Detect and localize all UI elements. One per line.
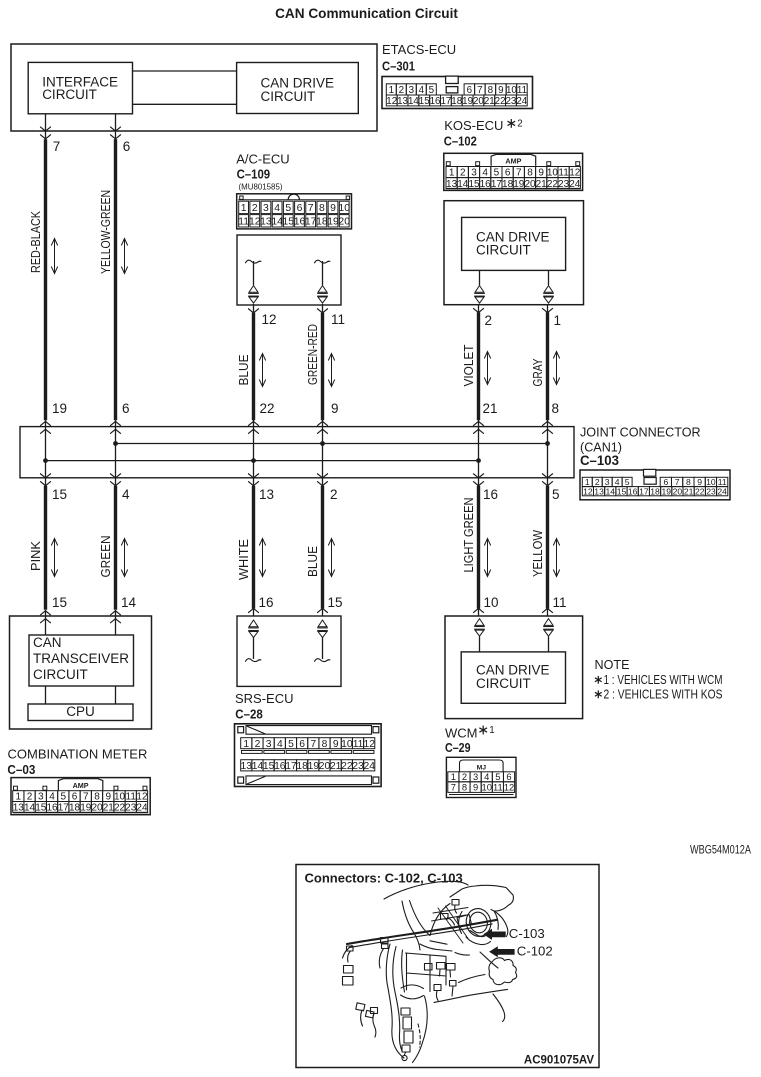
svg-text:22: 22	[695, 486, 705, 496]
wires through joint connector	[45, 420, 47, 486]
wire YELLOW lower	[546, 486, 549, 609]
joint connector box C-103	[20, 427, 574, 478]
connector C-301 (ETACS)	[382, 77, 533, 109]
arrow col3	[262, 354, 264, 386]
arrow to C-102	[489, 946, 514, 957]
svg-text:18: 18	[451, 96, 462, 107]
svg-text:10: 10	[547, 168, 559, 179]
junction dots upper bus	[113, 441, 118, 446]
svg-text:10: 10	[484, 595, 499, 610]
svg-text:14: 14	[457, 179, 469, 190]
svg-text:CIRCUIT: CIRCUIT	[261, 89, 316, 104]
svg-text:11: 11	[553, 595, 567, 610]
svg-text:18: 18	[69, 803, 81, 814]
svg-text:17: 17	[491, 179, 503, 190]
svg-text:12: 12	[262, 312, 277, 327]
svg-text:20: 20	[673, 486, 683, 496]
svg-text:12: 12	[386, 96, 397, 107]
svg-text:18: 18	[296, 761, 308, 772]
svg-text:11: 11	[238, 217, 249, 228]
link transceiver-CPU col2	[115, 686, 117, 704]
wire col1 into meter	[45, 610, 47, 635]
svg-text:6: 6	[122, 401, 130, 416]
svg-text:6: 6	[467, 85, 473, 96]
svg-text:2: 2	[399, 85, 404, 96]
svg-text:19: 19	[513, 179, 525, 190]
svg-text:14: 14	[24, 803, 36, 814]
svg-text:13: 13	[397, 96, 408, 107]
connector C-102 (KOS)	[444, 153, 583, 190]
svg-text:C–102: C–102	[444, 134, 477, 149]
svg-text:15: 15	[283, 217, 295, 228]
harness illustration	[343, 881, 517, 1062]
svg-text:12: 12	[249, 217, 261, 228]
svg-text:23: 23	[505, 96, 516, 107]
svg-text:9: 9	[330, 203, 336, 214]
svg-text:22: 22	[260, 401, 275, 416]
svg-text:4: 4	[482, 168, 488, 179]
svg-text:BLUE: BLUE	[306, 546, 320, 577]
A/C-ECU box	[237, 235, 341, 305]
svg-text:10: 10	[338, 203, 350, 214]
svg-text:17: 17	[58, 803, 70, 814]
termination symbol col3 (SRS)	[249, 620, 258, 627]
arrow GREEN	[124, 539, 126, 576]
svg-text:22: 22	[114, 803, 126, 814]
svg-text:GREEN: GREEN	[99, 536, 113, 578]
svg-text:7: 7	[451, 781, 456, 792]
svg-text:16: 16	[430, 96, 441, 107]
svg-text:14: 14	[605, 486, 615, 496]
svg-text:2: 2	[517, 119, 522, 130]
svg-text:ETACS-ECU: ETACS-ECU	[382, 42, 456, 57]
svg-text:C–103: C–103	[580, 453, 619, 468]
svg-text:20: 20	[338, 217, 350, 228]
svg-text:16: 16	[274, 761, 286, 772]
svg-text:CAN Communication Circuit: CAN Communication Circuit	[275, 6, 458, 21]
svg-text:WHITE: WHITE	[237, 539, 251, 580]
svg-text:13: 13	[241, 761, 253, 772]
svg-text:9: 9	[538, 168, 544, 179]
svg-text:RED-BLACK: RED-BLACK	[29, 210, 43, 273]
svg-text:15: 15	[35, 803, 47, 814]
crossing at SRS/WCM box edge	[473, 608, 484, 612]
svg-text:CIRCUIT: CIRCUIT	[476, 243, 531, 258]
CAN transceiver circuit block	[29, 635, 134, 686]
svg-text:12: 12	[583, 486, 593, 496]
svg-text:5: 5	[429, 85, 435, 96]
svg-text:24: 24	[569, 179, 581, 190]
svg-text:12: 12	[504, 781, 514, 792]
svg-text:11: 11	[493, 781, 503, 792]
crossing at meter box edge	[40, 611, 51, 615]
crossing at A/C box edge col4	[317, 309, 328, 313]
svg-text:SRS-ECU: SRS-ECU	[235, 691, 294, 706]
svg-text:3: 3	[263, 203, 269, 214]
connector C-109 (A/C)	[237, 194, 352, 229]
svg-text:15: 15	[52, 487, 67, 502]
svg-text:17: 17	[639, 486, 649, 496]
svg-text:A/C-ECU: A/C-ECU	[236, 151, 289, 166]
svg-text:4: 4	[122, 487, 130, 502]
wire col2 into meter	[115, 610, 117, 635]
svg-text:15: 15	[419, 96, 430, 107]
connector C-28 (SRS)	[235, 724, 382, 787]
svg-text:PINK: PINK	[29, 540, 43, 571]
svg-text:GRAY: GRAY	[531, 358, 545, 386]
svg-text:AC901075AV: AC901075AV	[524, 1055, 594, 1067]
crossing at KOS box edge col6	[542, 308, 553, 312]
svg-text:11: 11	[331, 312, 345, 327]
svg-text:8: 8	[527, 168, 533, 179]
svg-text:21: 21	[483, 401, 498, 416]
svg-text:7: 7	[53, 139, 61, 154]
svg-text:COMBINATION METER: COMBINATION METER	[8, 747, 148, 762]
wire PINK lower	[44, 486, 47, 610]
wire BLUE lower	[321, 486, 324, 609]
svg-text:15: 15	[52, 595, 67, 610]
svg-text:1: 1	[449, 168, 455, 179]
CAN drive circuit block (KOS)	[462, 217, 566, 270]
svg-text:C-103: C-103	[509, 926, 545, 941]
svg-text:3: 3	[471, 168, 477, 179]
wire col2 from interface circuit	[115, 114, 117, 140]
svg-text:(MU801585): (MU801585)	[239, 181, 283, 191]
wire LIGHT GREEN lower	[477, 486, 480, 609]
svg-text:9: 9	[498, 85, 503, 96]
svg-text:AMP: AMP	[505, 157, 521, 166]
svg-text:JOINT CONNECTOR: JOINT CONNECTOR	[580, 426, 701, 440]
arrow col6	[556, 352, 558, 384]
crossing at SRS/WCM box edge	[317, 608, 328, 612]
svg-text:14: 14	[121, 595, 137, 610]
svg-text:2: 2	[485, 313, 493, 328]
svg-text:15: 15	[468, 179, 480, 190]
svg-text:WBG54M012A: WBG54M012A	[690, 845, 751, 857]
wire col4 GREEN-RED	[321, 313, 324, 421]
svg-text:NOTE: NOTE	[595, 658, 630, 672]
svg-text:C–109: C–109	[237, 166, 271, 181]
svg-text:19: 19	[327, 217, 339, 228]
link transceiver-CPU col1	[45, 686, 47, 704]
termination symbol col5 (WCM)	[475, 619, 484, 626]
svg-text:15: 15	[617, 486, 627, 496]
svg-text:21: 21	[103, 803, 115, 814]
svg-text:23: 23	[558, 179, 570, 190]
svg-text:3: 3	[409, 85, 415, 96]
svg-text:11: 11	[517, 85, 527, 96]
svg-text:14: 14	[252, 761, 264, 772]
svg-text:21: 21	[684, 486, 694, 496]
svg-text:23: 23	[125, 803, 137, 814]
svg-text:20: 20	[319, 761, 331, 772]
termination symbol col4 (SRS)	[318, 620, 327, 627]
svg-text:23: 23	[706, 486, 716, 496]
lead col6 inside KOS box	[548, 270, 550, 285]
connector C-103 (joint, small)	[580, 470, 730, 500]
svg-text:9: 9	[331, 401, 339, 416]
svg-text:16: 16	[46, 803, 58, 814]
crossing at SRS/WCM box edge	[542, 608, 553, 612]
svg-text:C-102: C-102	[517, 944, 553, 959]
arrow col2	[124, 239, 126, 273]
svg-text:15: 15	[263, 761, 275, 772]
svg-text:22: 22	[341, 761, 353, 772]
svg-text:16: 16	[294, 217, 306, 228]
combination meter outer box	[10, 616, 152, 729]
svg-text:3: 3	[266, 739, 272, 750]
svg-text:8: 8	[319, 203, 325, 214]
svg-text:22: 22	[495, 96, 506, 107]
svg-text:19: 19	[52, 401, 67, 416]
svg-text:18: 18	[316, 217, 328, 228]
svg-text:AMP: AMP	[73, 781, 89, 790]
arrow LIGHT GREEN	[487, 539, 489, 576]
svg-text:CPU: CPU	[66, 704, 95, 719]
svg-text:11: 11	[353, 739, 364, 750]
svg-text:Connectors: C-102, C-103: Connectors: C-102, C-103	[305, 871, 463, 886]
svg-text:17: 17	[305, 217, 317, 228]
svg-text:LIGHT GREEN: LIGHT GREEN	[462, 498, 476, 573]
svg-text:8: 8	[462, 781, 467, 792]
CAN drive circuit block (WCM)	[461, 652, 565, 703]
svg-text:VIOLET: VIOLET	[462, 344, 476, 386]
svg-text:13: 13	[446, 179, 458, 190]
svg-text:13: 13	[13, 803, 25, 814]
svg-text:13: 13	[260, 217, 272, 228]
svg-text:4: 4	[274, 203, 280, 214]
svg-text:8: 8	[552, 401, 560, 416]
arrow YELLOW	[556, 539, 558, 576]
CAN bus upper line	[116, 443, 548, 445]
svg-text:5: 5	[288, 739, 294, 750]
arrow WHITE	[262, 539, 264, 576]
termination symbol col5 (KOS)	[475, 286, 484, 293]
svg-text:22: 22	[547, 179, 559, 190]
arrow BLUE	[331, 539, 333, 576]
svg-text:CIRCUIT: CIRCUIT	[42, 87, 97, 102]
svg-text:YELLOW: YELLOW	[531, 530, 545, 577]
svg-text:1: 1	[241, 203, 247, 214]
svg-text:2: 2	[255, 739, 261, 750]
svg-text:5: 5	[285, 203, 291, 214]
svg-text:1: 1	[489, 725, 494, 736]
wire col2 YELLOW-GREEN	[114, 139, 117, 420]
svg-text:20: 20	[524, 179, 536, 190]
svg-text:9: 9	[333, 739, 339, 750]
wire col3 BLUE	[252, 313, 255, 421]
termination symbol col6 (WCM)	[544, 619, 553, 626]
termination symbol col6 (KOS)	[544, 286, 553, 293]
svg-text:7: 7	[477, 85, 482, 96]
svg-text:C–28: C–28	[235, 706, 262, 721]
svg-text:1: 1	[243, 739, 249, 750]
crossing at ETACS box edge col2	[110, 127, 121, 131]
svg-text:2: 2	[252, 203, 258, 214]
svg-text:15: 15	[328, 595, 343, 610]
CPU box	[28, 704, 133, 721]
crossing at meter box edge	[110, 611, 121, 615]
svg-text:24: 24	[516, 96, 527, 107]
svg-text:CIRCUIT: CIRCUIT	[33, 667, 88, 682]
WCM box	[445, 616, 583, 719]
svg-text:12: 12	[569, 168, 581, 179]
svg-text:16: 16	[480, 179, 492, 190]
svg-text:24: 24	[136, 803, 148, 814]
svg-text:5: 5	[552, 487, 560, 502]
svg-text:1: 1	[554, 313, 562, 328]
wire col6 GRAY	[546, 312, 549, 420]
svg-text:10: 10	[506, 85, 517, 96]
connector C-29 (WCM)	[446, 757, 516, 797]
arrow PINK	[54, 539, 56, 576]
svg-text:WCM: WCM	[445, 726, 478, 741]
wire col1 from interface circuit	[45, 114, 47, 140]
svg-text:4: 4	[277, 739, 283, 750]
junction dots lower bus	[43, 458, 48, 463]
svg-text:8: 8	[322, 739, 328, 750]
svg-text:13: 13	[259, 487, 274, 502]
svg-text:6: 6	[297, 203, 303, 214]
bus lines between interface and CAN drive blocks	[133, 70, 237, 72]
svg-text:19: 19	[462, 96, 473, 107]
svg-text:5: 5	[494, 168, 500, 179]
svg-text:24: 24	[363, 761, 375, 772]
svg-text:CIRCUIT: CIRCUIT	[476, 676, 531, 691]
svg-text:2 : VEHICLES WITH KOS: 2 : VEHICLES WITH KOS	[604, 688, 723, 702]
wire GREEN lower	[114, 486, 117, 610]
wire WHITE lower	[252, 486, 255, 609]
svg-text:16: 16	[259, 595, 274, 610]
connector C-03 (combination meter)	[11, 778, 150, 815]
arrow col5	[487, 352, 489, 384]
svg-text:21: 21	[484, 96, 495, 107]
svg-text:23: 23	[352, 761, 364, 772]
crossing joint bottom all columns	[40, 474, 51, 478]
connector location figure box	[296, 865, 599, 1068]
arrow col4	[331, 354, 333, 386]
svg-text:16: 16	[628, 486, 638, 496]
svg-text:GREEN-RED: GREEN-RED	[306, 324, 320, 385]
crossing joint top col1	[40, 421, 51, 425]
svg-text:18: 18	[650, 486, 660, 496]
lead col5 inside KOS box	[479, 270, 481, 285]
svg-text:10: 10	[482, 781, 492, 792]
svg-text:2: 2	[330, 487, 338, 502]
svg-text:14: 14	[271, 217, 283, 228]
svg-text:C–03: C–03	[7, 762, 35, 777]
svg-text:17: 17	[285, 761, 297, 772]
KOS-ECU box	[444, 201, 584, 305]
termination symbol col3	[245, 260, 261, 263]
svg-text:14: 14	[408, 96, 419, 107]
svg-text:KOS-ECU: KOS-ECU	[444, 118, 503, 133]
svg-text:1 : VEHICLES WITH WCM: 1 : VEHICLES WITH WCM	[604, 673, 723, 687]
svg-text:7: 7	[308, 203, 314, 214]
crossing at SRS/WCM box edge	[248, 608, 259, 612]
wire col5 VIOLET	[477, 312, 480, 420]
svg-text:TRANSCEIVER: TRANSCEIVER	[33, 651, 129, 666]
svg-text:16: 16	[483, 487, 498, 502]
CAN bus lower line	[46, 460, 479, 462]
svg-text:19: 19	[80, 803, 92, 814]
svg-text:BLUE: BLUE	[237, 355, 251, 386]
arrow to C-103	[483, 929, 505, 940]
svg-text:21: 21	[536, 179, 548, 190]
svg-text:18: 18	[502, 179, 514, 190]
svg-text:8: 8	[488, 85, 494, 96]
svg-text:C–301: C–301	[382, 59, 415, 74]
crossing at KOS box edge col5	[473, 308, 484, 312]
svg-text:CAN: CAN	[33, 635, 62, 650]
svg-text:C–29: C–29	[445, 740, 471, 755]
svg-text:17: 17	[440, 96, 451, 107]
svg-text:4: 4	[419, 85, 425, 96]
svg-text:6: 6	[299, 739, 305, 750]
svg-text:YELLOW-GREEN: YELLOW-GREEN	[99, 190, 113, 274]
svg-text:20: 20	[91, 803, 103, 814]
svg-text:24: 24	[717, 486, 727, 496]
CAN drive circuit block (ETACS)	[237, 63, 359, 114]
termination symbol col4	[314, 260, 330, 263]
svg-text:11: 11	[558, 168, 569, 179]
svg-text:13: 13	[594, 486, 604, 496]
svg-text:19: 19	[661, 486, 671, 496]
ETACS-ECU outer box	[11, 44, 377, 131]
svg-text:1: 1	[389, 85, 394, 96]
svg-text:7: 7	[516, 168, 522, 179]
arrow col1	[54, 239, 56, 273]
wire col1 RED-BLACK	[44, 139, 47, 420]
svg-text:7: 7	[310, 739, 316, 750]
svg-text:2: 2	[460, 168, 466, 179]
svg-text:6: 6	[123, 139, 131, 154]
svg-text:12: 12	[363, 739, 375, 750]
svg-text:10: 10	[341, 739, 353, 750]
svg-text:9: 9	[473, 781, 478, 792]
svg-text:19: 19	[308, 761, 320, 772]
svg-text:20: 20	[473, 96, 484, 107]
svg-text:21: 21	[330, 761, 342, 772]
interface circuit block	[28, 62, 132, 113]
SRS-ECU box	[237, 616, 341, 686]
crossing at A/C box edge col3	[248, 309, 259, 313]
crossing at ETACS box edge col1	[40, 127, 51, 131]
svg-text:6: 6	[505, 168, 511, 179]
